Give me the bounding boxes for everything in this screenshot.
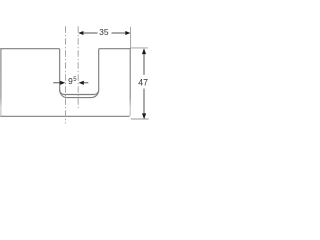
extension line horizontal top right <box>131 47 148 49</box>
washbasin left edge (fading down) <box>0 48 2 116</box>
cutout outer bottom contour <box>60 90 99 98</box>
dim 47 up arrow <box>142 48 146 54</box>
centerline left (dash-dot) <box>65 26 67 123</box>
dim 47 down arrow <box>142 113 146 119</box>
svg-text:5: 5 <box>73 77 77 83</box>
dim 9.5 left tail <box>53 82 61 84</box>
dim 35 right arrow <box>125 31 130 35</box>
dim 9.5 right arrow (pointing left) <box>79 81 84 85</box>
washbasin right edge (fading down) <box>128 48 130 116</box>
svg-text:47: 47 <box>138 78 148 88</box>
dim 47 line segments <box>143 53 145 75</box>
washbasin top edge right segment <box>99 48 131 50</box>
U-shaped cutout inner contour <box>60 49 99 95</box>
extension line vertical right <box>130 27 132 49</box>
dim 9.5 left arrow (pointing right) <box>60 81 65 85</box>
dim 35 line segments <box>83 32 98 34</box>
dim 35 left arrow <box>78 31 83 35</box>
svg-text:35: 35 <box>99 27 109 37</box>
extension line bottom right (floor level) <box>131 118 149 120</box>
washbasin top edge left segment <box>0 48 59 50</box>
centerline right (dash-dot) <box>77 26 79 109</box>
washbasin bottom edge <box>0 115 129 117</box>
dim 9.5 right tail <box>84 82 89 84</box>
